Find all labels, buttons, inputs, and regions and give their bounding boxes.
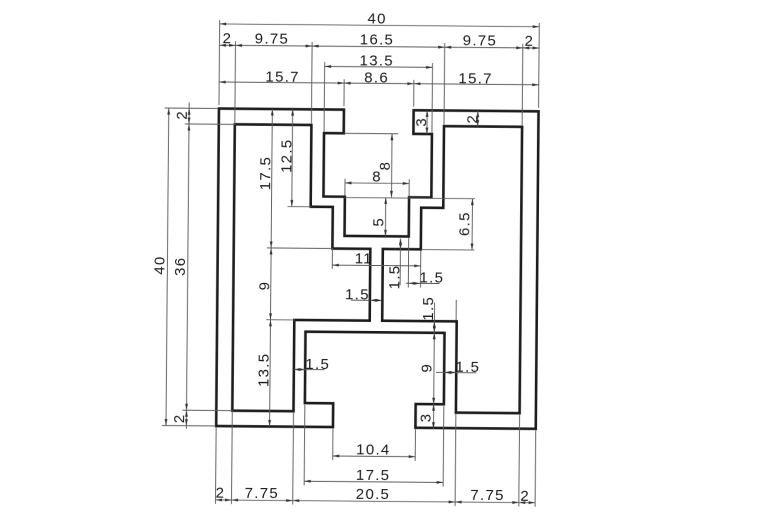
dimension chain 1.5 / 9 / 3 (lower block, right) [418,296,457,429]
svg-text:1.5: 1.5 [455,359,480,376]
extension lines left of profile [162,108,334,427]
dimension 2 / 36 / 2 (left) [171,102,191,429]
svg-text:9: 9 [419,363,436,373]
svg-text:40: 40 [151,255,168,274]
svg-text:6.5: 6.5 [456,211,473,236]
svg-text:2: 2 [525,33,535,50]
svg-text:36: 36 [172,257,189,276]
dimension chain 15.7 / 8.6 / 15.7 (top) [219,68,539,88]
svg-text:7.75: 7.75 [245,485,280,502]
svg-text:2: 2 [520,488,530,505]
svg-text:2: 2 [464,114,481,124]
svg-text:2: 2 [223,30,233,47]
svg-text:13.5: 13.5 [359,52,394,69]
svg-text:10.4: 10.4 [356,441,391,458]
dimension 1.5 (central web width) [345,286,382,303]
svg-text:8: 8 [372,169,382,186]
svg-text:13.5: 13.5 [256,353,273,388]
dimension chain 2 / 7.75 / 20.5 / 7.75 / 2 (bottom) [216,485,536,505]
dimension 1.5 (lower block right wall) [436,359,480,376]
svg-text:8.6: 8.6 [364,69,389,86]
dimension 1.5 (pocket floor thickness) [386,238,403,289]
dimension 11 (upper block bottom width) [332,249,421,288]
dimension chain 2 / 9.75 / 16.5 / 9.75 / 2 (top) [219,30,539,50]
dimension chain 17.5 / 9 / 13.5 (inner left) [255,109,275,427]
dimension 40 (overall height, left) [150,108,170,426]
svg-text:9: 9 [256,281,273,291]
svg-text:1.5: 1.5 [345,286,370,303]
profile left chamber (hollow) [232,124,371,411]
svg-text:17.5: 17.5 [356,467,391,484]
dimension 1.5 (lower block left wall) [294,356,330,373]
svg-text:11: 11 [355,250,373,267]
svg-text:2: 2 [174,110,191,120]
dimension 13.5 (top slot cavity width) [325,52,433,70]
dimension 8 (vertical, lip to step) [345,133,399,197]
svg-text:40: 40 [367,11,386,28]
extension lines above profile [219,20,540,133]
svg-text:16.5: 16.5 [360,31,395,48]
svg-text:5: 5 [371,217,388,227]
svg-text:1.5: 1.5 [305,356,330,373]
svg-text:15.7: 15.7 [265,68,300,85]
dimension 12.5 (top wall to step) [278,109,296,207]
dimension 5 (pocket depth) [370,197,387,236]
svg-text:12.5: 12.5 [278,138,295,173]
dimension 8 (horizontal, pocket width) [345,168,409,196]
dimension 6.5 (step to block bottom, right) [421,198,475,250]
svg-text:7.75: 7.75 [470,487,505,504]
svg-text:1.5: 1.5 [420,296,437,321]
svg-text:2: 2 [216,485,226,502]
profile outline: outer boundary of 40x40 extrusion [216,109,538,429]
extension lines below profile [215,404,535,507]
dimension 17.5 (bottom cavity width) [304,466,443,484]
svg-text:3: 3 [413,117,430,127]
svg-text:2: 2 [171,413,188,423]
svg-text:20.5: 20.5 [356,486,391,503]
dimension 1.5 (pocket wall to block edge) [406,237,445,288]
svg-text:17.5: 17.5 [257,156,274,191]
dimension 10.4 (bottom slot opening) [333,441,416,459]
svg-text:9.75: 9.75 [463,32,498,49]
extension line at step level (for dims 8 / 5 / 6.5) [345,198,475,199]
svg-text:9.75: 9.75 [255,30,290,47]
svg-text:15.7: 15.7 [458,70,493,87]
svg-text:3: 3 [418,413,435,423]
svg-text:1.5: 1.5 [386,264,403,289]
dimension 2 (top wall, right) [464,111,481,127]
svg-text:1.5: 1.5 [419,270,444,287]
profile right chamber (hollow) [381,126,522,413]
dimension 40 (overall width, top) [220,9,540,29]
dimension 3 (top lip depth) [413,110,430,134]
